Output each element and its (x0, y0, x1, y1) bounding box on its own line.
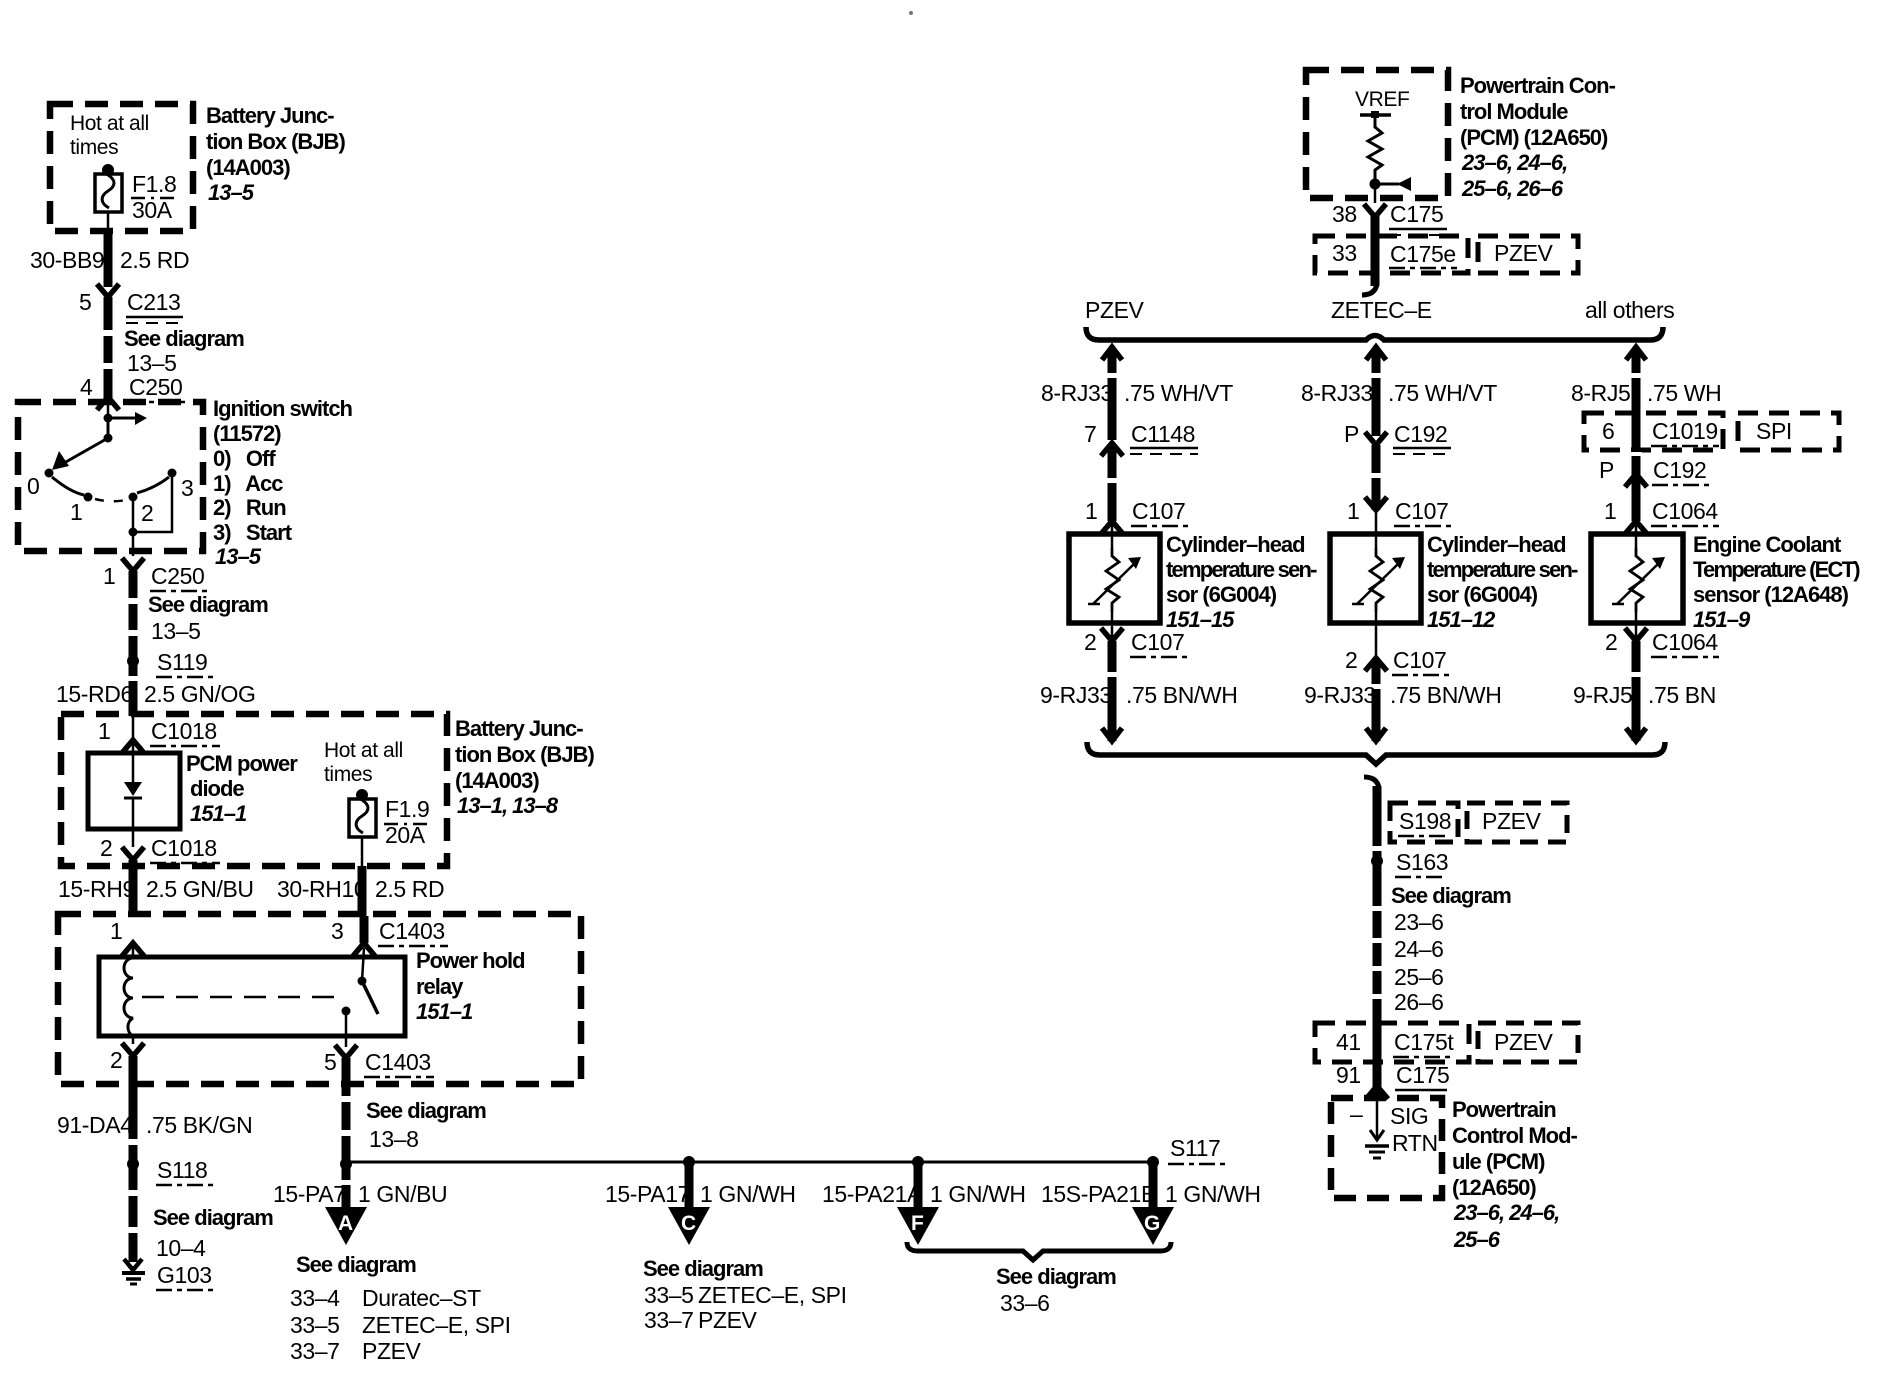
connector arrow up into ignition switch (97, 397, 119, 410)
svg-text:ZETEC–E, SPI: ZETEC–E, SPI (698, 1282, 847, 1308)
svg-text:Engine Coolant: Engine Coolant (1693, 532, 1842, 557)
wire PZEV branch (8-RJ33 .75 WH/VT) (1102, 347, 1122, 360)
wire out of sensor 3 (1635, 612, 1638, 640)
svg-text:VREF: VREF (1355, 88, 1409, 111)
svg-text:trol Module: trol Module (1460, 99, 1568, 124)
svg-text:1: 1 (1347, 498, 1359, 524)
power hold relay box (99, 957, 405, 1036)
splice S118 (127, 1158, 139, 1170)
svg-text:9-RJ33: 9-RJ33 (1304, 682, 1376, 708)
svg-text:C175e: C175e (1390, 241, 1456, 267)
svg-text:6: 6 (1602, 418, 1614, 444)
svg-text:151–12: 151–12 (1427, 607, 1496, 632)
svg-text:–: – (1350, 1101, 1363, 1127)
splice box S198 (1390, 803, 1458, 842)
svg-text:151–1: 151–1 (416, 999, 473, 1024)
svg-text:2) Run: 2) Run (213, 495, 286, 520)
svg-text:S119: S119 (157, 649, 207, 675)
wire into diode (132, 716, 135, 753)
svg-text:Hot at all: Hot at all (324, 739, 403, 762)
svg-text:C1403: C1403 (365, 1049, 431, 1075)
svg-text:Powertrain Con-: Powertrain Con- (1460, 73, 1616, 98)
svg-text:Control Mod-: Control Mod- (1452, 1123, 1578, 1148)
svg-text:sor (6G004): sor (6G004) (1427, 582, 1538, 607)
VREF terminal bar (1360, 113, 1391, 117)
relay dashed link (142, 996, 346, 999)
svg-text:ZETEC–E: ZETEC–E (1331, 297, 1432, 323)
arrow onto bottom bracket (middle) (1366, 728, 1386, 741)
node: VREF junction dot (1370, 179, 1381, 190)
svg-text:.75 BN/WH: .75 BN/WH (1390, 682, 1501, 708)
svg-text:PZEV: PZEV (1494, 1029, 1554, 1055)
svg-text:13–5: 13–5 (151, 618, 201, 644)
svg-text:2.5 RD: 2.5 RD (375, 876, 444, 902)
wire C250 to S119 (129, 571, 138, 716)
svg-text:See diagram: See diagram (1391, 883, 1511, 908)
svg-text:tion Box (BJB): tion Box (BJB) (206, 129, 345, 154)
svg-text:15-PA7: 15-PA7 (273, 1181, 346, 1207)
tag box PZEV (S198) (1467, 803, 1567, 842)
PCM power diode box (88, 753, 180, 829)
svg-text:sensor (12A648): sensor (12A648) (1693, 582, 1849, 607)
wire to pin 38 (1374, 184, 1377, 203)
stray scan dot (909, 11, 913, 15)
ground (SIG RTN) (1365, 1144, 1389, 1148)
wire C213 to C250 (104, 297, 113, 398)
svg-text:See diagram: See diagram (148, 592, 268, 617)
svg-text:2: 2 (1345, 647, 1357, 673)
svg-text:tion Box (BJB): tion Box (BJB) (455, 742, 594, 767)
wire into sensor 2 (1375, 510, 1378, 548)
svg-text:C107: C107 (1131, 629, 1184, 655)
svg-text:15-RH9: 15-RH9 (58, 876, 135, 902)
svg-text:P: P (1599, 457, 1614, 483)
connector arrow down at C192 (1365, 432, 1387, 445)
svg-text:33–7: 33–7 (644, 1307, 694, 1333)
wire out of ignition switch (132, 532, 135, 556)
connector arrow down at C1064 pin2 (1625, 628, 1647, 641)
svg-text:33–4: 33–4 (290, 1285, 340, 1311)
svg-text:23–6, 24–6,: 23–6, 24–6, (1453, 1200, 1559, 1225)
svg-text:C250: C250 (151, 563, 204, 589)
connector arrow up into sensor 3 (1625, 521, 1647, 534)
svg-text:C175t: C175t (1394, 1029, 1454, 1055)
svg-text:25–6, 26–6: 25–6, 26–6 (1461, 176, 1564, 201)
svg-text:2: 2 (1605, 629, 1617, 655)
cylinder-head temperature sensor box 2 (1330, 534, 1421, 623)
svg-text:2: 2 (141, 500, 153, 526)
bus wire to S117 (346, 1161, 1153, 1164)
connector arrow down relay pin5 (335, 1045, 357, 1058)
svg-text:0: 0 (27, 473, 39, 499)
svg-text:1: 1 (110, 918, 122, 944)
svg-text:S117: S117 (1170, 1135, 1220, 1161)
connector box 41 C175t (1315, 1023, 1469, 1062)
travel arc 0-1 (52, 477, 84, 495)
wire through C1019 (1632, 417, 1641, 521)
wire out of sensor 1 (1111, 612, 1114, 640)
tail hook (1362, 284, 1377, 295)
svg-text:relay: relay (416, 974, 464, 999)
svg-text:See diagram: See diagram (996, 1264, 1116, 1289)
svg-text:diode: diode (190, 776, 244, 801)
svg-text:C175: C175 (1390, 201, 1443, 227)
svg-text:C1064: C1064 (1652, 629, 1718, 655)
svg-text:.75 BN: .75 BN (1648, 682, 1716, 708)
wire 30-RH10 2.5 RD (358, 866, 367, 916)
svg-text:C: C (681, 1212, 696, 1235)
svg-text:0) Off: 0) Off (213, 446, 276, 471)
tag box PZEV (1478, 236, 1578, 273)
svg-text:Temperature (ECT): Temperature (ECT) (1693, 557, 1860, 582)
svg-text:times: times (324, 763, 372, 786)
svg-text:See diagram: See diagram (366, 1098, 486, 1123)
svg-text:30-BB9: 30-BB9 (30, 247, 104, 273)
svg-text:9-RJ33: 9-RJ33 (1040, 682, 1112, 708)
svg-text:ZETEC–E, SPI: ZETEC–E, SPI (362, 1312, 511, 1338)
svg-text:C107: C107 (1132, 498, 1185, 524)
wire contact 3 down and left (133, 473, 172, 532)
SIG RTN internal wire (1376, 1101, 1379, 1140)
svg-text:See diagram: See diagram (296, 1252, 416, 1277)
svg-text:(12A650): (12A650) (1452, 1175, 1536, 1200)
svg-text:1 GN/WH: 1 GN/WH (930, 1181, 1026, 1207)
svg-text:1: 1 (98, 718, 110, 744)
svg-text:1: 1 (1085, 498, 1097, 524)
svg-text:Battery Junc-: Battery Junc- (455, 716, 583, 741)
wire relay pin5 down (342, 1058, 351, 1164)
wire 15-RH9 2.5 GN/BU (129, 860, 138, 916)
svg-text:PZEV: PZEV (362, 1338, 422, 1364)
svg-text:5: 5 (79, 289, 91, 315)
connector arrow down at C1018 pin2 (122, 847, 144, 860)
svg-text:33–5: 33–5 (290, 1312, 340, 1338)
wire relay coil to pin 2 (132, 1036, 135, 1044)
wire 9-RJ33 .75 BN/WH (1108, 641, 1117, 741)
svg-text:P: P (1344, 421, 1359, 447)
svg-text:F: F (911, 1212, 924, 1235)
connector box 6 C1019 (1584, 413, 1723, 450)
svg-text:sor (6G004): sor (6G004) (1166, 582, 1277, 607)
svg-text:2.5 GN/BU: 2.5 GN/BU (146, 876, 254, 902)
wire into relay pin3 (360, 916, 369, 943)
thermistor symbol 2 (1370, 548, 1383, 612)
svg-text:2.5 RD: 2.5 RD (120, 247, 189, 273)
svg-text:23–6, 24–6,: 23–6, 24–6, (1461, 150, 1567, 175)
svg-text:PZEV: PZEV (1482, 808, 1542, 834)
svg-text:Battery Junc-: Battery Junc- (206, 103, 334, 128)
svg-text:3) Start: 3) Start (213, 520, 293, 545)
svg-text:41: 41 (1336, 1029, 1361, 1055)
svg-text:S118: S118 (157, 1157, 207, 1183)
svg-text:9-RJ5: 9-RJ5 (1573, 682, 1632, 708)
wire all-others branch (8-RJ5 .75 WH) (1626, 347, 1646, 360)
svg-text:33: 33 (1332, 240, 1357, 266)
svg-text:13–5: 13–5 (215, 544, 262, 569)
contact 3 (168, 469, 177, 478)
svg-text:(14A003): (14A003) (455, 768, 539, 793)
node: fuse top dot (102, 164, 114, 176)
svg-text:2: 2 (1084, 629, 1096, 655)
svg-text:23–6: 23–6 (1394, 909, 1444, 935)
svg-text:1) Acc: 1) Acc (213, 471, 283, 496)
node: switch feed dot (104, 414, 113, 423)
connector arrow up relay pin3 (353, 943, 375, 956)
arrow onto bottom bracket (right) (1626, 728, 1646, 741)
connector arrow down at C175 (1364, 204, 1386, 217)
wire out of sensor 2 (1375, 612, 1378, 658)
connector arrow up below C1148 (1101, 443, 1123, 456)
wire diode box to bottom edge (132, 829, 135, 847)
svg-text:Ignition switch: Ignition switch (213, 396, 353, 421)
svg-text:C192: C192 (1653, 457, 1706, 483)
tag box SPI (1738, 413, 1839, 450)
engine coolant temperature sensor box (1591, 534, 1683, 623)
svg-text:1: 1 (1604, 498, 1616, 524)
powertrain control module PCM box (top) (1306, 70, 1448, 198)
svg-text:.75 BK/GN: .75 BK/GN (146, 1112, 252, 1138)
svg-text:A: A (338, 1212, 353, 1235)
svg-text:.75 BN/WH: .75 BN/WH (1126, 682, 1237, 708)
svg-text:C1064: C1064 (1652, 498, 1718, 524)
svg-text:.75 WH/VT: .75 WH/VT (1124, 380, 1233, 406)
svg-text:C1148: C1148 (1131, 421, 1195, 447)
node: junction under contact 2 (129, 528, 138, 537)
wire fuse F1.9 down (361, 837, 364, 866)
svg-text:13–8: 13–8 (369, 1126, 419, 1152)
svg-text:7: 7 (1084, 421, 1096, 447)
svg-text:times: times (70, 136, 118, 159)
wire 30-BB9 2.5 RD (104, 229, 113, 287)
node: fuse F1.9 top dot (356, 789, 368, 801)
powertrain control module PCM box (bottom) (1331, 1098, 1442, 1198)
svg-text:C192: C192 (1394, 421, 1447, 447)
svg-text:1: 1 (70, 499, 82, 525)
svg-text:PZEV: PZEV (1085, 297, 1145, 323)
connector arrow up into PCM2 (1366, 1086, 1388, 1099)
svg-text:2: 2 (100, 835, 112, 861)
svg-text:1 GN/WH: 1 GN/WH (1165, 1181, 1261, 1207)
bottom bracket bus (1087, 742, 1665, 764)
svg-text:30A: 30A (132, 197, 173, 223)
travel arc 1-2 dashed (95, 499, 126, 501)
svg-text:(PCM) (12A650): (PCM) (12A650) (1460, 125, 1608, 150)
svg-text:C107: C107 (1395, 498, 1448, 524)
connector arrow up into sensor (1101, 521, 1123, 534)
node: splice S117 (1147, 1156, 1159, 1168)
svg-text:C213: C213 (127, 289, 180, 315)
svg-text:33–5: 33–5 (644, 1282, 694, 1308)
svg-text:C1018: C1018 (151, 718, 217, 744)
svg-text:.75 WH/VT: .75 WH/VT (1388, 380, 1497, 406)
contact 1 (84, 493, 93, 502)
svg-text:S163: S163 (1396, 849, 1448, 875)
contact 2 (129, 493, 138, 502)
resistor (PCM pull-up) (1368, 117, 1382, 183)
wire 9-RJ5 .75 BN (1632, 641, 1641, 741)
svg-text:RTN: RTN (1392, 1130, 1438, 1156)
svg-text:3: 3 (331, 918, 343, 944)
svg-text:Power hold: Power hold (416, 948, 525, 973)
connector arrow down at C107 pin2 (1101, 628, 1123, 641)
svg-text:13–5: 13–5 (208, 180, 255, 205)
svg-text:26–6: 26–6 (1394, 989, 1444, 1015)
thermistor symbol 1 (1106, 548, 1119, 612)
svg-text:PZEV: PZEV (1494, 240, 1554, 266)
wire C192 to C107 (1372, 445, 1381, 510)
svg-text:Hot at all: Hot at all (70, 112, 149, 135)
svg-text:13–5: 13–5 (127, 350, 177, 376)
svg-text:5: 5 (324, 1049, 336, 1075)
svg-text:4: 4 (80, 374, 93, 400)
svg-text:C250: C250 (129, 374, 182, 400)
wire bracket to S163 (1364, 777, 1379, 788)
svg-text:1 GN/WH: 1 GN/WH (700, 1181, 796, 1207)
svg-text:Powertrain: Powertrain (1452, 1097, 1556, 1122)
arrow A (325, 1207, 367, 1245)
wire into sensor 1 (1111, 523, 1114, 548)
splice S163 (1371, 855, 1383, 867)
connector arrow up relay pin1 (122, 943, 144, 956)
svg-text:ule (PCM): ule (PCM) (1452, 1149, 1545, 1174)
relay switch blade (362, 981, 378, 1014)
battery junction box BJB (diode section) (61, 714, 447, 866)
thermistor symbol 3 (1630, 548, 1643, 612)
wire 9-RJ33 .75 BN/WH (middle) (1372, 660, 1381, 741)
svg-text:15-RD6: 15-RD6 (56, 681, 133, 707)
relay coil (132, 943, 135, 958)
svg-text:.75 WH: .75 WH (1647, 380, 1721, 406)
node: branch at 15-PA7 (340, 1158, 352, 1170)
svg-text:See diagram: See diagram (124, 326, 244, 351)
battery junction box BJB (relay section) (58, 914, 581, 1084)
svg-text:temperature sen-: temperature sen- (1166, 557, 1317, 582)
svg-text:Cylinder–head: Cylinder–head (1166, 532, 1305, 557)
svg-text:91: 91 (1336, 1062, 1361, 1088)
wire 15-PA7 1 GN/BU (342, 1164, 351, 1209)
wire fuse to box bottom (107, 212, 110, 231)
svg-text:G103: G103 (157, 1262, 212, 1288)
wire pin38 to ZETEC-E tail (1371, 215, 1380, 286)
connector arrow out of switch (122, 558, 144, 571)
svg-text:13–1, 13–8: 13–1, 13–8 (457, 793, 559, 818)
svg-text:SPI: SPI (1756, 418, 1792, 444)
svg-text:See diagram: See diagram (153, 1205, 273, 1230)
svg-text:Cylinder–head: Cylinder–head (1427, 532, 1566, 557)
svg-text:15-PA17: 15-PA17 (605, 1181, 690, 1207)
node: branch at 15-PA21A (912, 1156, 924, 1168)
svg-text:all others: all others (1585, 297, 1674, 323)
svg-text:C107: C107 (1393, 647, 1446, 673)
svg-text:8-RJ5: 8-RJ5 (1571, 380, 1630, 406)
svg-text:Duratec–ST: Duratec–ST (362, 1285, 481, 1311)
svg-text:25–6: 25–6 (1453, 1227, 1501, 1252)
wire 15-PA21A 1 GN/WH (914, 1162, 923, 1209)
svg-text:20A: 20A (385, 822, 426, 848)
svg-text:15-PA21A: 15-PA21A (822, 1181, 923, 1207)
svg-text:G: G (1144, 1212, 1160, 1235)
diode D1 (132, 753, 135, 782)
cylinder-head temperature sensor box 1 (1069, 534, 1160, 623)
connector box 33 C175e (1315, 236, 1468, 273)
wire down to wiper pivot (107, 418, 110, 438)
svg-text:C175: C175 (1396, 1062, 1449, 1088)
arrow G (1132, 1207, 1174, 1245)
svg-text:10–4: 10–4 (156, 1235, 206, 1261)
svg-text:33–7: 33–7 (290, 1338, 340, 1364)
wire 91-DA4 .75 BK/GN (129, 1056, 138, 1262)
ground G103 (124, 1259, 142, 1270)
svg-text:C1019: C1019 (1652, 418, 1718, 444)
svg-text:F1.8: F1.8 (132, 171, 176, 197)
svg-text:(11572): (11572) (213, 421, 281, 446)
svg-text:F1.9: F1.9 (385, 796, 429, 822)
wire 15-PA17 1 GN/WH (685, 1162, 694, 1209)
wire C1148 to C107 (1108, 445, 1117, 521)
svg-text:8-RJ33: 8-RJ33 (1301, 380, 1373, 406)
arrow onto bottom bracket (1102, 728, 1122, 741)
svg-text:S198: S198 (1399, 808, 1451, 834)
node: branch at 15-PA17 (683, 1156, 695, 1168)
connector arrow up at C1018 (122, 740, 144, 753)
wire into switch (107, 405, 110, 418)
svg-text:24–6: 24–6 (1394, 936, 1444, 962)
PCM internal stub with arrowhead (1375, 183, 1399, 186)
contact 0 (45, 469, 54, 478)
svg-text:PCM power: PCM power (186, 751, 298, 776)
relay fixed contact to pin 5 (342, 1007, 351, 1016)
wire contact 2 down (132, 497, 135, 532)
svg-text:8-RJ33: 8-RJ33 (1041, 380, 1113, 406)
ignition switch box (11572) (18, 402, 203, 551)
svg-text:SIG: SIG (1390, 1103, 1428, 1129)
switch feed arrow right (108, 417, 136, 420)
svg-text:2.5 GN/OG: 2.5 GN/OG (144, 681, 255, 707)
svg-text:151–1: 151–1 (190, 801, 247, 826)
svg-text:C1403: C1403 (379, 918, 445, 944)
svg-text:2: 2 (110, 1047, 122, 1073)
wire 15S-PA21B 1 GN/WH (1149, 1162, 1158, 1209)
connector arrow down at C107 middle (1365, 497, 1387, 510)
connector arrow up at C192 right (1625, 474, 1647, 487)
svg-text:1: 1 (103, 563, 115, 589)
svg-text:temperature sen-: temperature sen- (1427, 557, 1578, 582)
svg-text:25–6: 25–6 (1394, 964, 1444, 990)
wire ZETEC-E branch (8-RJ33 .75 WH/VT) (1366, 347, 1386, 360)
svg-text:1 GN/BU: 1 GN/BU (358, 1181, 447, 1207)
splice S119 (127, 655, 139, 667)
svg-text:38: 38 (1332, 201, 1357, 227)
connector arrow up at C107 pin2 middle (1365, 658, 1387, 671)
travel arc 2-3 (137, 477, 169, 493)
svg-text:C1018: C1018 (151, 835, 217, 861)
svg-text:(14A003): (14A003) (206, 155, 290, 180)
relay switch contact (from pin 3) (362, 948, 364, 981)
arrow C (668, 1207, 710, 1245)
arrow F (897, 1207, 939, 1245)
svg-text:91-DA4: 91-DA4 (57, 1112, 133, 1138)
tag box PZEV (C175t) (1478, 1023, 1578, 1062)
switch wiper arm toward position 0 (64, 438, 108, 463)
svg-text:33–6: 33–6 (1000, 1290, 1050, 1316)
svg-text:3: 3 (181, 475, 193, 501)
fuse F1.8 (95, 174, 122, 212)
wire into sensor 3 (1635, 510, 1638, 548)
connector arrow down relay pin2 (122, 1043, 144, 1056)
battery junction box BJB (top) (50, 104, 193, 231)
brace under F and G (907, 1242, 1171, 1260)
fuse F1.9 (349, 799, 376, 837)
